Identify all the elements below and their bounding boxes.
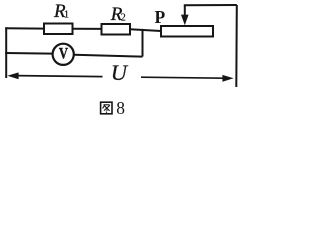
wire left vertical — [5, 27, 7, 78]
svg-text:P: P — [155, 7, 166, 27]
resistor R1 — [44, 24, 73, 35]
label R1 — [53, 1, 69, 22]
wiper arrowhead of potentiometer P — [181, 15, 189, 26]
dimension arrow U right half — [141, 75, 234, 82]
svg-text:V: V — [59, 45, 69, 63]
caption: hanzi TU (figure) drawn as paths — [101, 102, 112, 114]
dimension arrow U left half — [7, 72, 102, 79]
wiper arm wire of P (shaft) — [184, 5, 186, 16]
wire junction vertical (node between R2 and P down to voltmeter) — [142, 29, 144, 57]
wire top horizontal to right — [184, 4, 237, 6]
wire right vertical — [235, 5, 238, 87]
potentiometer P body — [161, 26, 213, 37]
wire R2 to potentiometer P — [130, 29, 161, 31]
wire top-left horizontal — [5, 27, 44, 29]
wire voltmeter right — [74, 55, 143, 57]
wire R1 to R2 — [72, 28, 101, 30]
label R2 — [110, 4, 126, 25]
wire voltmeter left — [5, 52, 52, 55]
svg-text:8: 8 — [116, 98, 125, 118]
svg-text:1: 1 — [64, 10, 69, 21]
voltmeter V — [53, 44, 74, 65]
svg-text:U: U — [111, 60, 129, 85]
resistor R2 — [102, 24, 131, 35]
svg-text:2: 2 — [121, 12, 126, 23]
